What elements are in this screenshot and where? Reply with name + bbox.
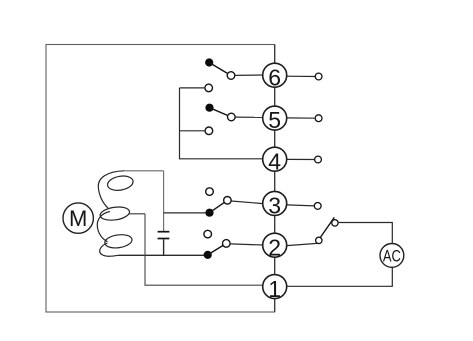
wire S6 NC contact to bracket: [180, 87, 205, 89]
line switch SW upper circle: [332, 220, 338, 226]
winding W1 outer arc middle: [97, 212, 110, 242]
switch S2 arm: [208, 243, 227, 255]
wire switch S5 to terminal 5: [235, 116, 263, 118]
wire terminal 5 right stub: [287, 117, 316, 119]
switch S6 pivot circle: [227, 72, 235, 80]
wire bracket vertical to terminal 4 line: [180, 88, 264, 159]
terminal 2: [263, 233, 287, 260]
wire terminal 3 right stub: [287, 205, 314, 206]
terminal bus wire (right edge, through terminals 6-1): [274, 45, 276, 313]
switch S3 common contact dot: [205, 209, 213, 217]
wire terminal 4 right stub: [287, 158, 315, 160]
enclosure box: [46, 45, 275, 313]
wire switch S3 to terminal 3: [231, 201, 263, 204]
switch S3 NO contact circle: [206, 188, 214, 196]
terminal 1: [263, 275, 287, 302]
capacitor C1: [158, 232, 170, 256]
switch S3 pivot circle: [224, 197, 232, 205]
wire line switch to AC source: [338, 223, 392, 244]
line switch SW lower circle: [316, 237, 322, 243]
switch S6 arm: [209, 63, 231, 76]
terminal 3 right stub circle: [314, 203, 321, 210]
svg-text:1: 1: [268, 276, 281, 302]
winding W1 outer arc bottom exit: [100, 243, 119, 256]
wire terminal 2 to line switch: [287, 244, 316, 246]
switch S6 closed contact dot: [205, 58, 213, 66]
winding W1 loop 3: [104, 233, 133, 249]
wire winding bottom lead to switch S2 common: [119, 254, 205, 256]
wire middle lead down to terminal 1: [145, 214, 264, 285]
terminal 3: [263, 191, 287, 218]
switch S3 arm: [210, 200, 228, 212]
switch S2 NO contact circle: [204, 230, 212, 238]
wire S5 NC contact to bracket: [180, 130, 205, 132]
winding W1 outer arc top: [98, 171, 124, 208]
winding W1 loop 1: [106, 174, 134, 192]
switch S5 pivot circle: [228, 113, 236, 121]
switch S5 arm: [210, 108, 232, 117]
terminal 4: [263, 147, 287, 174]
terminal 6: [263, 63, 287, 90]
switch S5 closed contact dot: [205, 104, 213, 112]
wire winding middle lead: [129, 213, 146, 215]
svg-text:6: 6: [268, 64, 281, 90]
AC source G1: [380, 244, 404, 268]
terminal 6 right stub circle: [315, 73, 322, 80]
wire node A to switch S3 common: [164, 212, 206, 214]
wire winding top lead: [124, 170, 164, 172]
line switch SW arm: [316, 217, 334, 244]
wire terminal 6 right stub: [287, 75, 316, 77]
svg-text:AC: AC: [383, 247, 401, 266]
svg-text:3: 3: [268, 193, 281, 219]
svg-text:4: 4: [268, 148, 281, 174]
switch S6 NC contact circle: [205, 84, 213, 92]
svg-text:2: 2: [268, 234, 281, 260]
switch S2 pivot circle: [223, 240, 231, 248]
terminal 5 right stub circle: [315, 115, 322, 122]
terminal 4 right stub circle: [315, 156, 322, 163]
terminal 5: [263, 106, 287, 133]
wire switch S2 to terminal 2: [230, 244, 263, 245]
wire node A vertical (winding top to capacitor top): [163, 171, 165, 231]
wire AC source to terminal 1: [286, 267, 392, 286]
motor M1: [63, 203, 93, 233]
switch S2 common contact dot: [204, 251, 212, 259]
wire switch S6 to terminal 6: [235, 74, 263, 76]
svg-text:5: 5: [268, 107, 281, 133]
switch S5 NC contact circle: [205, 127, 213, 135]
winding W1 loop 2: [99, 205, 130, 222]
svg-text:M: M: [69, 206, 87, 231]
